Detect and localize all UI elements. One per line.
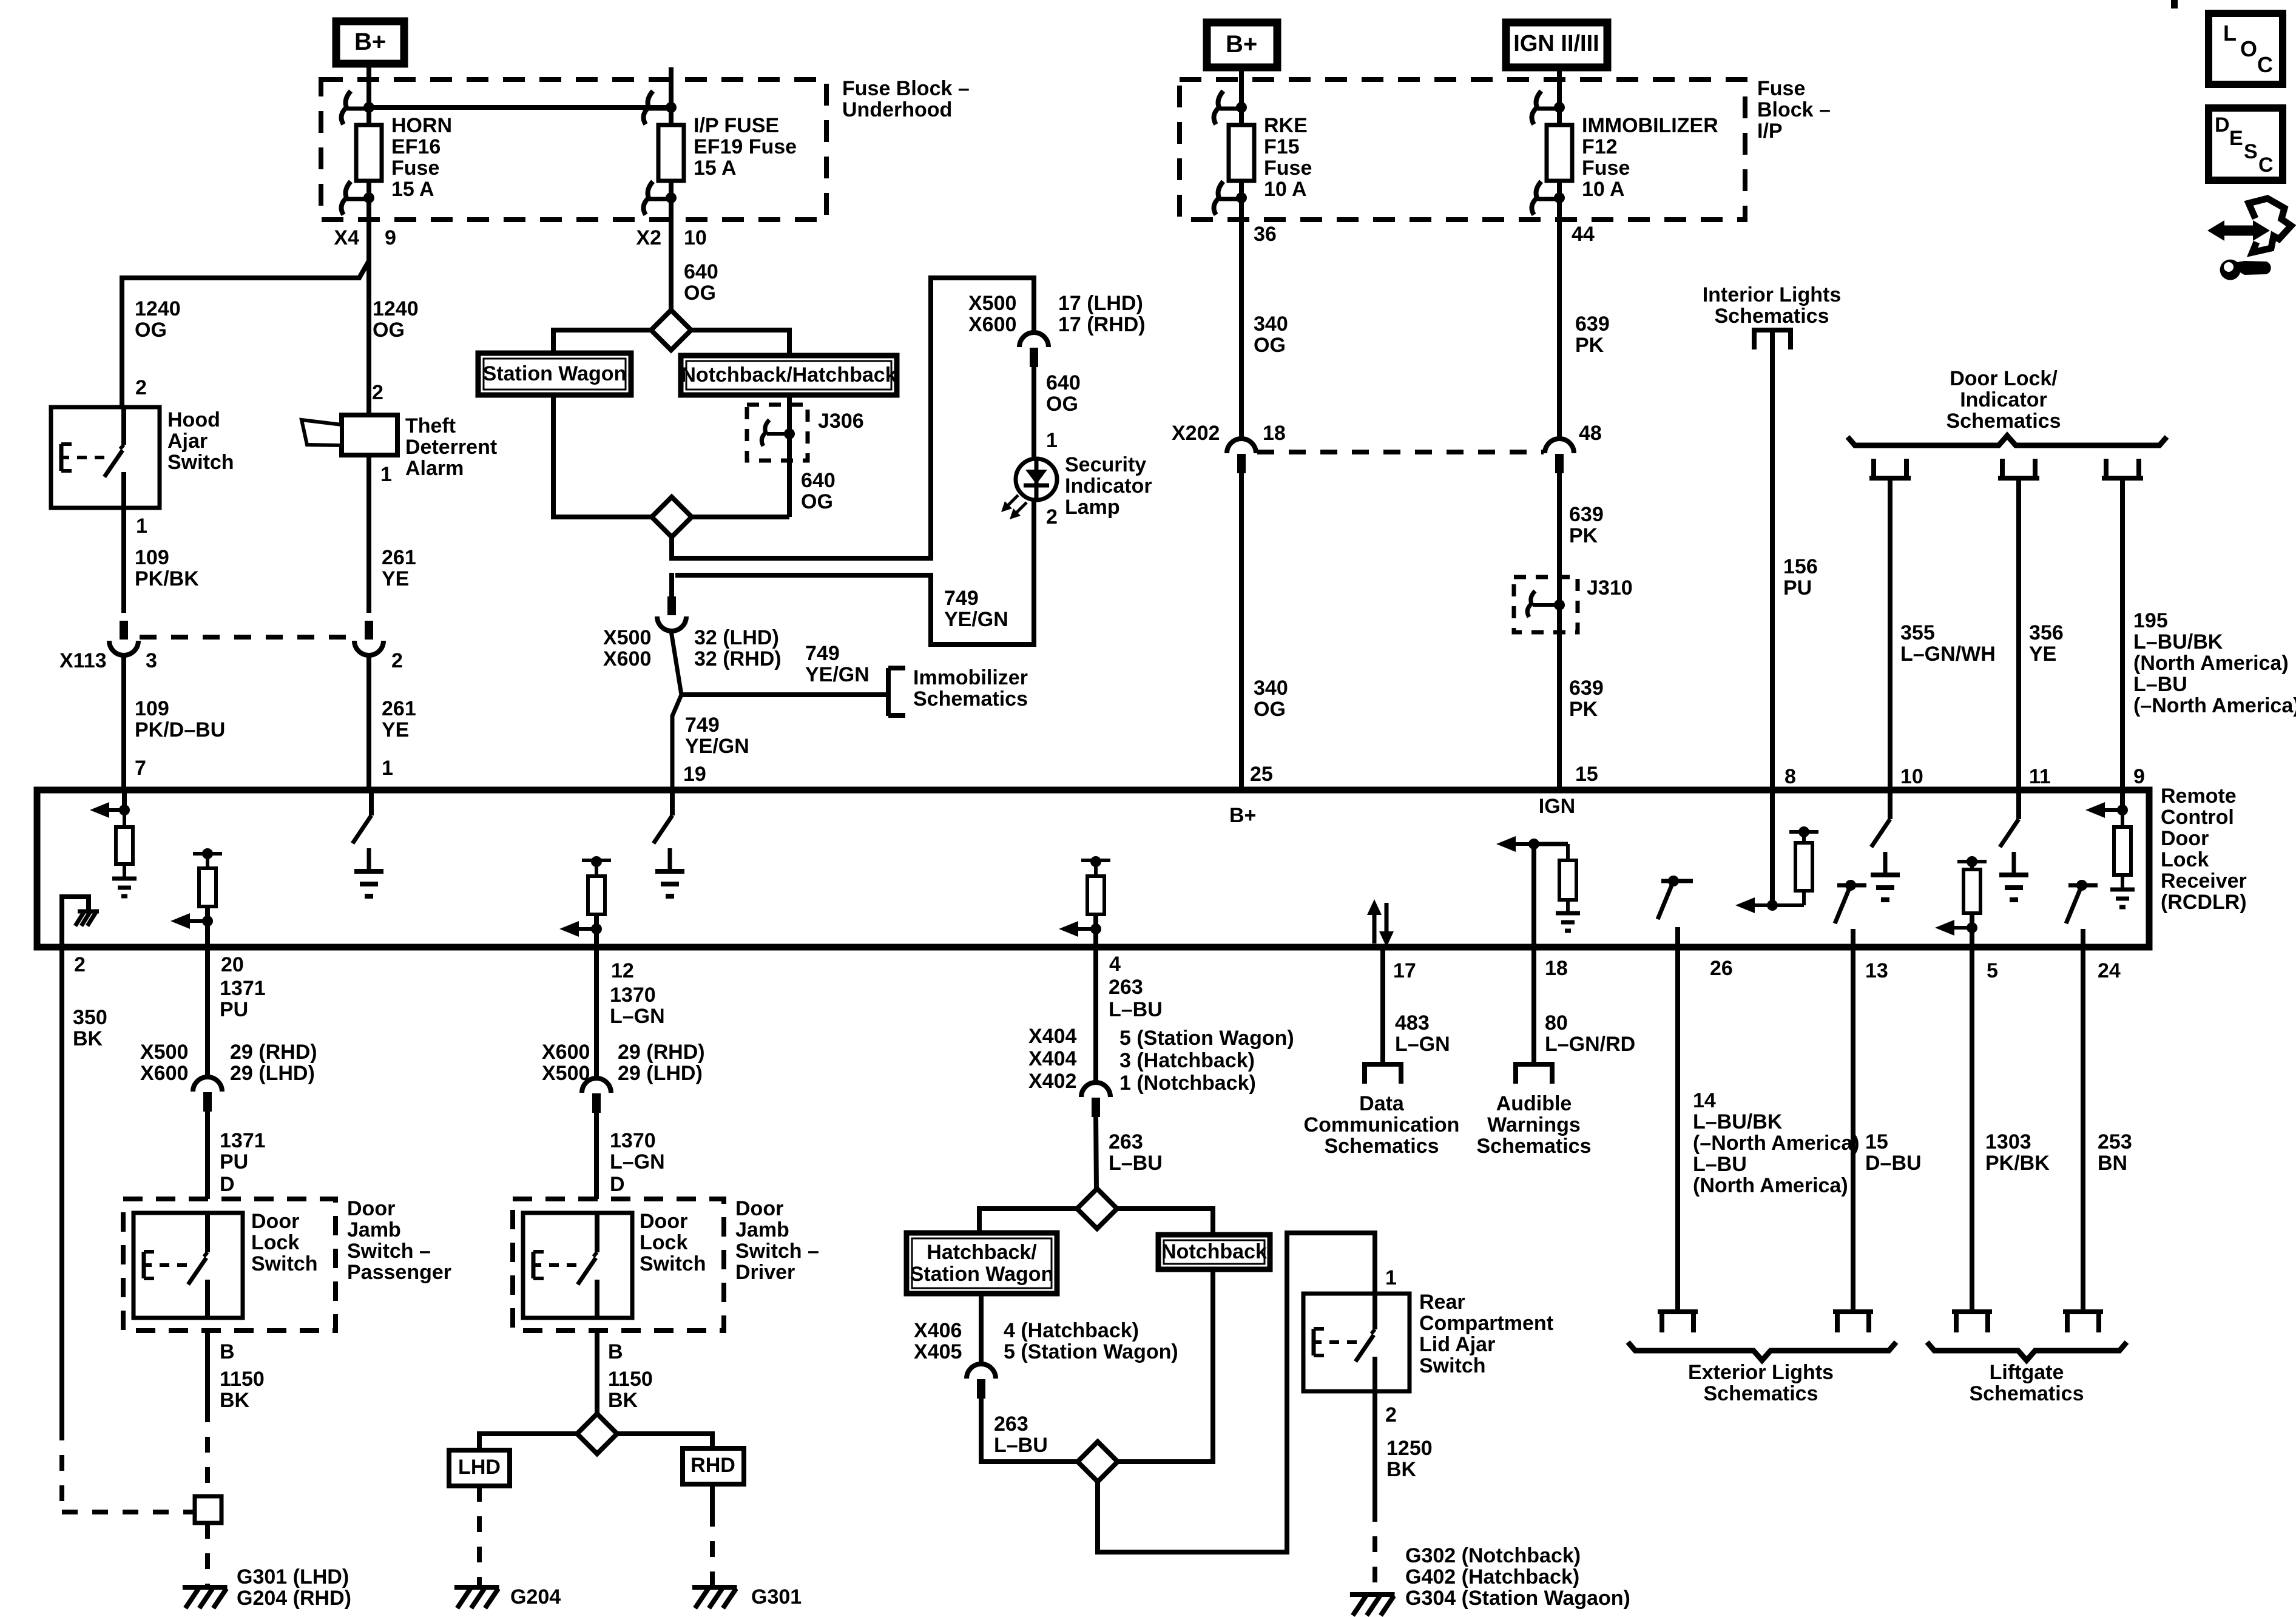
svg-text:OG: OG: [684, 282, 716, 305]
svg-text:3: 3: [146, 649, 157, 672]
label 1371 PU upper: [220, 977, 266, 1021]
svg-text:Door: Door: [251, 1210, 299, 1233]
label pin 15: [1575, 763, 1598, 786]
splice diamond hatchback: [1077, 1189, 1117, 1229]
wire conn17 to lamp: [1032, 364, 1036, 459]
svg-text:Switch: Switch: [640, 1252, 706, 1275]
label pin 26 below: [1710, 957, 1733, 980]
label Fuse Block - Underhood: [842, 77, 970, 121]
label B+ internal: [1229, 804, 1256, 827]
label 355 L-GN/WH: [1900, 621, 1996, 666]
svg-text:C: C: [2258, 154, 2274, 177]
label G204: [510, 1585, 561, 1609]
label pin 17 below: [1393, 959, 1416, 982]
label Door Jamb Switch Driver: [735, 1197, 819, 1284]
svg-text:Schematics: Schematics: [1704, 1382, 1818, 1405]
wire junction over to conn17: [672, 278, 1034, 558]
svg-text:OG: OG: [1254, 698, 1286, 721]
wire RHD to G301: [710, 1484, 715, 1586]
label pin 1 lamp: [1046, 429, 1058, 452]
svg-text:X405: X405: [914, 1340, 962, 1363]
label Data Communication Schematics: [1304, 1092, 1460, 1158]
label X2 10: [636, 226, 706, 249]
svg-text:340: 340: [1254, 312, 1288, 336]
svg-text:109: 109: [135, 697, 169, 720]
power feed B+ (right): [1207, 22, 1277, 67]
label pin 10: [1900, 765, 1923, 788]
svg-text:Schematics: Schematics: [1970, 1382, 2084, 1405]
LHD box: [449, 1450, 510, 1486]
wire to pin 9: [2120, 478, 2125, 791]
label 263 L-BU lower: [994, 1413, 1048, 1457]
svg-text:2: 2: [74, 953, 86, 976]
brace door lock indicator: [1848, 436, 2167, 445]
wire to theft alarm: [366, 263, 371, 415]
svg-text:29 (RHD): 29 (RHD): [618, 1041, 705, 1064]
label pin 48 conn: [1579, 422, 1602, 445]
svg-text:Hatchback/: Hatchback/: [927, 1241, 1037, 1264]
svg-text:Alarm: Alarm: [405, 457, 464, 480]
label Interior Lights Schematics: [1703, 283, 1842, 328]
svg-text:L–BU: L–BU: [1109, 1152, 1163, 1175]
svg-text:263: 263: [994, 1413, 1028, 1436]
terminal pin24: [2063, 1312, 2103, 1332]
wire B+ to RKE fuse: [1239, 67, 1244, 107]
svg-text:19: 19: [683, 763, 706, 786]
svg-text:749: 749: [944, 587, 979, 610]
svg-text:BK: BK: [220, 1389, 250, 1412]
label Door Jamb Switch Passenger: [347, 1197, 451, 1284]
svg-text:10: 10: [1900, 765, 1923, 788]
pin4 resistor: [1059, 856, 1110, 947]
label 1250 BK: [1386, 1437, 1433, 1481]
label pin 8: [1784, 765, 1796, 788]
wire J306 down: [787, 461, 792, 517]
connector X113: [109, 621, 138, 655]
label pin 25: [1250, 763, 1273, 786]
pin17 data arrows: [1367, 899, 1394, 947]
svg-text:Lock: Lock: [640, 1231, 687, 1254]
svg-text:D: D: [220, 1173, 235, 1196]
DESC box: [2209, 108, 2283, 180]
svg-text:1: 1: [1385, 1266, 1397, 1289]
label 29 RHD LHD pass: [230, 1041, 317, 1085]
svg-text:OG: OG: [135, 319, 167, 342]
svg-text:2: 2: [135, 376, 147, 399]
label Security Indicator Lamp: [1065, 453, 1152, 519]
fuse EF19 I/P: [643, 67, 797, 220]
station wagon box: [478, 353, 631, 395]
svg-text:639: 639: [1569, 677, 1604, 700]
terminal pin11 wire: [1998, 459, 2039, 478]
label Exterior Lights Schematics: [1688, 1361, 1834, 1405]
connector theft 2: [354, 621, 383, 655]
pin10 switch to ground: [1871, 791, 1900, 900]
svg-text:Interior Lights: Interior Lights: [1703, 283, 1842, 306]
svg-text:18: 18: [1263, 422, 1286, 445]
svg-text:L–BU: L–BU: [1109, 998, 1163, 1021]
svg-text:J310: J310: [1587, 576, 1633, 599]
ground G301: [692, 1587, 737, 1609]
svg-text:32 (RHD): 32 (RHD): [694, 647, 782, 670]
label 1150 BK pass: [220, 1368, 265, 1412]
bracket interior lights: [1752, 330, 1793, 349]
connector X500/X600 17: [1019, 333, 1048, 367]
svg-text:Schematics: Schematics: [1325, 1135, 1439, 1158]
svg-text:17 (RHD): 17 (RHD): [1058, 313, 1146, 336]
svg-text:640: 640: [801, 469, 836, 492]
bracket audible warnings: [1513, 1064, 1555, 1084]
pin1 switch to ground: [353, 790, 383, 896]
svg-text:Indicator: Indicator: [1960, 388, 2047, 411]
svg-text:109: 109: [135, 546, 169, 569]
svg-text:5: 5: [1987, 959, 1998, 982]
svg-text:D: D: [610, 1173, 625, 1196]
label Liftgate Schematics: [1970, 1361, 2084, 1405]
svg-text:PU: PU: [220, 998, 248, 1021]
wire hatchback box down: [979, 1294, 984, 1363]
svg-text:X600: X600: [603, 647, 651, 670]
label X404 X402: [1028, 1025, 1076, 1093]
junction J306: [747, 405, 808, 461]
label 4 hatchback 5 wagon: [1004, 1319, 1178, 1363]
splice diamond lower: [652, 497, 692, 537]
wire ip fuse to diamond: [669, 220, 674, 311]
label pin 2 hood switch: [135, 376, 147, 399]
dashed line X202-48: [1257, 450, 1544, 454]
svg-text:4 (Hatchback): 4 (Hatchback): [1004, 1319, 1139, 1342]
svg-text:IMMOBILIZER: IMMOBILIZER: [1582, 114, 1718, 137]
label 261 YE lower: [382, 697, 416, 741]
svg-text:1: 1: [136, 515, 147, 538]
svg-text:263: 263: [1109, 976, 1143, 999]
label 1370 L-GN upper: [610, 984, 665, 1028]
wire diamond to RHD: [617, 1434, 712, 1450]
label pin 1 rcdlr: [382, 757, 393, 780]
svg-text:Data: Data: [1359, 1092, 1405, 1115]
svg-text:1371: 1371: [220, 1129, 266, 1152]
svg-text:B: B: [608, 1340, 623, 1363]
svg-text:8: 8: [1784, 765, 1796, 788]
svg-text:X402: X402: [1028, 1070, 1076, 1093]
pin20 resistor: [171, 848, 222, 947]
wire hood switch to X113: [121, 508, 126, 613]
svg-text:YE: YE: [382, 718, 409, 741]
svg-text:L–GN: L–GN: [1395, 1033, 1450, 1056]
svg-text:(RCDLR): (RCDLR): [2161, 891, 2247, 914]
door jamb switch passenger box: [123, 1199, 336, 1331]
svg-text:1240: 1240: [373, 297, 419, 320]
svg-text:RHD: RHD: [690, 1454, 735, 1477]
svg-text:10: 10: [684, 226, 707, 249]
svg-text:C: C: [2257, 52, 2273, 77]
wire diamond to station wagon: [553, 330, 652, 354]
connector drv door: [582, 1078, 611, 1113]
label pin 19: [683, 763, 706, 786]
fuse block I/P box (dashed): [1180, 79, 1745, 220]
label Door Lock Switch drv: [640, 1210, 706, 1275]
svg-text:5 (Station Wagon): 5 (Station Wagon): [1004, 1340, 1178, 1363]
svg-text:Immobilizer: Immobilizer: [913, 666, 1028, 689]
label 156 PU: [1783, 555, 1818, 599]
label X500 X600 conn17: [968, 292, 1016, 336]
svg-text:YE/GN: YE/GN: [685, 735, 749, 758]
pin24 switch: [2066, 880, 2098, 947]
svg-text:X500: X500: [968, 292, 1016, 315]
svg-text:G402 (Hatchback): G402 (Hatchback): [1405, 1565, 1579, 1588]
label X500 X600 pass: [140, 1041, 188, 1085]
svg-text:2: 2: [391, 649, 403, 672]
svg-text:L–BU: L–BU: [994, 1434, 1048, 1457]
svg-text:44: 44: [1572, 223, 1595, 246]
wire lamp to conn32: [675, 500, 1034, 644]
svg-text:749: 749: [805, 642, 840, 665]
svg-text:Compartment: Compartment: [1419, 1312, 1553, 1335]
pin8 resistor: [1735, 791, 1818, 913]
label X500 X600 conn32: [603, 626, 651, 670]
connector 48: [1545, 439, 1574, 473]
wire J310 to pin 15: [1557, 632, 1562, 790]
svg-text:Lock: Lock: [251, 1231, 299, 1254]
svg-text:X600: X600: [968, 313, 1016, 336]
hood ajar switch: [51, 407, 160, 508]
junction J310: [1514, 577, 1578, 632]
power feed IGN II/III: [1506, 22, 1607, 67]
wire horn to ip fuse: [369, 105, 671, 110]
label pin 2 lid: [1385, 1403, 1397, 1426]
terminal pin10 wire: [1869, 459, 1911, 478]
terminal pin5: [1952, 1312, 1992, 1332]
svg-text:Lid Ajar: Lid Ajar: [1419, 1333, 1495, 1356]
wire immob fuse to 48: [1557, 220, 1562, 439]
svg-text:Warnings: Warnings: [1487, 1113, 1581, 1136]
svg-text:25: 25: [1250, 763, 1273, 786]
svg-text:(–North America): (–North America): [2133, 694, 2296, 717]
pin26 wire: [1675, 947, 1680, 1312]
svg-text:2: 2: [1046, 505, 1058, 528]
splice diamond drv: [577, 1414, 617, 1454]
label 1370 L-GN lower: [610, 1129, 665, 1173]
svg-text:29 (RHD): 29 (RHD): [230, 1041, 317, 1064]
svg-text:Fuse: Fuse: [1757, 77, 1805, 100]
label 639 PK mid: [1569, 503, 1604, 547]
label pin 2 below: [74, 953, 86, 976]
wire lid switch to ground: [1373, 1391, 1377, 1593]
wire interior lights to pin 8: [1770, 330, 1775, 791]
svg-text:Fuse: Fuse: [1582, 157, 1630, 180]
svg-text:OG: OG: [801, 490, 833, 513]
svg-text:15: 15: [1865, 1130, 1888, 1153]
svg-text:17: 17: [1393, 959, 1416, 982]
label 263 L-BU upper: [1109, 976, 1163, 1021]
label Door Lock Switch pass: [251, 1210, 318, 1275]
svg-text:1370: 1370: [610, 1129, 656, 1152]
svg-text:Door: Door: [2161, 827, 2209, 850]
label B pass: [220, 1340, 235, 1363]
label 1240 OG (right): [373, 297, 419, 342]
svg-text:3 (Hatchback): 3 (Hatchback): [1119, 1049, 1255, 1072]
svg-text:PK: PK: [1569, 698, 1598, 721]
hatchback/station wagon box: [907, 1233, 1057, 1294]
pin2 wire 350 BK: [62, 947, 193, 1512]
svg-text:Hood: Hood: [167, 408, 220, 431]
ground G302: [1350, 1595, 1395, 1616]
svg-text:26: 26: [1710, 957, 1733, 980]
label X113: [59, 649, 107, 672]
label pin 9: [2133, 765, 2145, 788]
svg-text:J306: J306: [818, 410, 864, 433]
svg-text:Switch –: Switch –: [735, 1240, 819, 1263]
label pin 1 lid: [1385, 1266, 1397, 1289]
label Immobilizer Schematics: [913, 666, 1028, 711]
svg-text:Remote: Remote: [2161, 785, 2237, 808]
wire branch immobilizer: [681, 692, 887, 697]
svg-text:1240: 1240: [135, 297, 181, 320]
door lock switch driver: [523, 1213, 632, 1318]
svg-text:Station Wagon: Station Wagon: [483, 362, 627, 385]
notchback/hatchback box: [681, 356, 897, 395]
svg-text:D–BU: D–BU: [1865, 1152, 1922, 1175]
svg-text:L–BU/BK: L–BU/BK: [2133, 630, 2223, 653]
svg-text:9: 9: [2133, 765, 2145, 788]
svg-text:Block –: Block –: [1757, 98, 1831, 121]
connector X406/X405: [967, 1364, 996, 1399]
label 14 L-BU/BK: [1693, 1089, 1860, 1197]
svg-text:L: L: [2223, 21, 2237, 46]
svg-text:Switch: Switch: [167, 451, 234, 474]
svg-text:1150: 1150: [608, 1368, 653, 1391]
svg-text:HORN: HORN: [391, 114, 452, 137]
wire conn to diamond lower: [981, 1396, 1079, 1462]
svg-text:12: 12: [611, 959, 634, 982]
svg-text:X404: X404: [1028, 1047, 1076, 1070]
RCDLR box: [37, 790, 2149, 947]
svg-text:640: 640: [1046, 371, 1081, 394]
svg-text:PK/D–BU: PK/D–BU: [135, 718, 225, 741]
brace liftgate: [1927, 1342, 2127, 1360]
pin13 switch: [1835, 880, 1866, 947]
svg-text:L–GN/WH: L–GN/WH: [1900, 643, 1996, 666]
svg-text:483: 483: [1395, 1011, 1430, 1035]
svg-text:Door: Door: [735, 1197, 783, 1220]
label pin 44: [1572, 223, 1595, 246]
label 749 YE/GN right: [944, 587, 1008, 631]
wire conn to RCDLR pin 1: [366, 653, 371, 790]
svg-text:X202: X202: [1172, 422, 1220, 445]
wire theft alarm to conn 2: [366, 455, 371, 613]
wire conn to diamond hb: [1096, 1115, 1096, 1190]
corner mark: [2171, 0, 2178, 8]
svg-text:I/P: I/P: [1757, 120, 1783, 143]
svg-text:2: 2: [1385, 1403, 1397, 1426]
svg-text:29 (LHD): 29 (LHD): [618, 1062, 703, 1085]
svg-text:Schematics: Schematics: [913, 687, 1028, 711]
terminal pin13: [1833, 1312, 1873, 1332]
svg-text:YE: YE: [382, 567, 409, 590]
wire LHD to G204: [477, 1486, 482, 1586]
wire conn32 to pin 19: [671, 631, 681, 790]
pin2 chassis ground: [62, 897, 99, 947]
svg-text:1: 1: [380, 463, 392, 486]
pin5 wire: [1970, 947, 1974, 1312]
svg-text:1250: 1250: [1386, 1437, 1433, 1460]
svg-text:17 (LHD): 17 (LHD): [1058, 292, 1143, 315]
svg-text:S: S: [2244, 140, 2258, 163]
label 639 PK lower: [1569, 677, 1604, 721]
svg-text:350: 350: [73, 1006, 107, 1029]
svg-text:IGN II/III: IGN II/III: [1513, 31, 1599, 56]
label 640 OG: [684, 260, 718, 305]
connector X500/X600 32: [657, 573, 686, 631]
svg-text:PK: PK: [1569, 524, 1598, 547]
svg-text:Ajar: Ajar: [167, 430, 208, 453]
svg-text:1303: 1303: [1985, 1130, 2031, 1153]
svg-text:340: 340: [1254, 677, 1288, 700]
label 356 YE: [2029, 621, 2064, 666]
svg-text:PK/BK: PK/BK: [135, 567, 199, 590]
label 15 D-BU: [1865, 1130, 1922, 1175]
label 639 PK upper: [1575, 312, 1610, 357]
svg-text:15 A: 15 A: [391, 178, 434, 201]
svg-text:G301 (LHD): G301 (LHD): [237, 1565, 349, 1588]
label X4 9: [334, 226, 396, 249]
label 32 LHD RHD: [694, 626, 782, 670]
svg-text:OG: OG: [373, 319, 405, 342]
pin12 resistor: [559, 856, 611, 947]
label IGN internal: [1539, 795, 1575, 818]
svg-text:F15: F15: [1264, 135, 1300, 158]
fuse F12 IMMOBILIZER: [1531, 67, 1718, 220]
label 5 3 1 options: [1119, 1027, 1294, 1095]
label 340 OG lower: [1254, 677, 1288, 721]
label 253 BN: [2098, 1130, 2132, 1175]
label 483 L-GN: [1395, 1011, 1450, 1056]
terminal pin9 wire: [2102, 459, 2143, 478]
label Door Lock Indicator Schematics: [1947, 367, 2061, 433]
label J310: [1587, 576, 1633, 599]
svg-text:X4: X4: [334, 226, 359, 249]
label pin 2 theft alarm: [372, 381, 383, 404]
svg-text:YE/GN: YE/GN: [944, 608, 1008, 631]
svg-text:Jamb: Jamb: [347, 1218, 401, 1241]
label pin 18 conn: [1263, 422, 1286, 445]
pin18 wire from junction: [1531, 844, 1536, 947]
label 29 RHD LHD drv: [618, 1041, 705, 1085]
svg-text:36: 36: [1254, 223, 1277, 246]
svg-text:639: 639: [1575, 312, 1610, 336]
svg-text:253: 253: [2098, 1130, 2132, 1153]
svg-text:(North America): (North America): [1693, 1174, 1848, 1197]
label X600 X500 drv: [542, 1041, 590, 1085]
label 109 PK/BK: [135, 546, 199, 590]
wire diamond rear loop to lid switch: [1098, 1233, 1375, 1552]
svg-text:PK/BK: PK/BK: [1985, 1152, 2050, 1175]
label RCDLR: [2161, 785, 2247, 914]
svg-text:PU: PU: [1783, 576, 1812, 599]
label pin 20 below: [221, 953, 244, 976]
svg-text:L–BU: L–BU: [1693, 1153, 1747, 1176]
svg-text:YE/GN: YE/GN: [805, 663, 869, 686]
svg-text:Control: Control: [2161, 806, 2234, 829]
svg-text:640: 640: [684, 260, 718, 283]
svg-text:1 (Notchback): 1 (Notchback): [1119, 1072, 1256, 1095]
svg-text:Fuse Block –: Fuse Block –: [842, 77, 970, 100]
label Fuse Block I/P: [1757, 77, 1831, 143]
label 1303 PK/BK: [1985, 1130, 2050, 1175]
svg-text:X500: X500: [542, 1062, 590, 1085]
svg-text:Deterrent: Deterrent: [405, 436, 497, 459]
pin5 resistor: [1935, 856, 1987, 947]
